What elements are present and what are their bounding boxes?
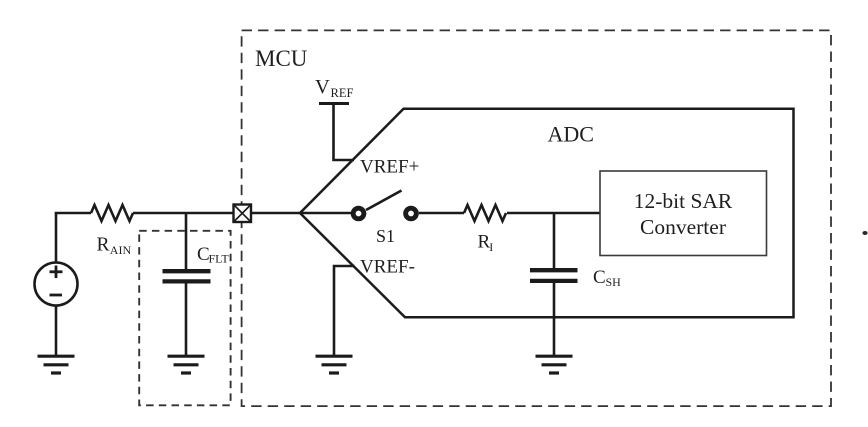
label C_SH: [593, 267, 621, 289]
wire: main input wire to resistor: [55, 212, 91, 215]
wire: VREF- tap to ground: [334, 266, 355, 356]
pin P1 (boundary pin symbol): [234, 205, 252, 223]
svg-text:MCU: MCU: [255, 46, 308, 71]
V_REF supply bar: [319, 102, 349, 105]
op-amp style ADC block outline (pentagon): [300, 109, 794, 317]
resistor R_I: [464, 205, 506, 221]
svg-text:12-bit SAR: 12-bit SAR: [634, 189, 733, 213]
svg-text:S1: S1: [376, 226, 395, 246]
voltage source V1: [35, 263, 78, 306]
C_FLT filter dashed boundary box: [139, 231, 230, 405]
svg-text:AIN: AIN: [110, 243, 132, 257]
svg-text:ADC: ADC: [548, 122, 594, 147]
MCU dashed boundary box: [242, 30, 831, 406]
svg-text:VREF+: VREF+: [360, 157, 419, 178]
label C_FLT: [197, 244, 229, 266]
capacitor C_SH: [530, 270, 578, 281]
svg-text:V: V: [315, 76, 330, 98]
block U1: 12-bit SAR Converter: [600, 171, 767, 256]
wire: source bottom lead: [55, 306, 58, 357]
wire: source top lead: [55, 213, 58, 263]
node: C_SH junction / wire down to C_SH: [553, 213, 556, 269]
wire: C_SH to ground: [553, 283, 556, 356]
ground under C_SH: [536, 356, 573, 373]
label V_REF: [315, 76, 353, 100]
wire: pin to ADC apex and switch: [251, 212, 351, 215]
switch S1: [351, 191, 419, 222]
svg-text:I: I: [489, 240, 493, 254]
wire: resistor to pin: [133, 212, 234, 215]
wire: V_REF down to VREF+: [334, 104, 355, 160]
svg-text:FLT: FLT: [209, 251, 230, 265]
svg-text:C: C: [593, 267, 606, 288]
wire: switch to R_I: [419, 212, 464, 215]
label R_AIN: [97, 235, 132, 258]
label R_I: [478, 232, 494, 254]
svg-text:R: R: [97, 235, 110, 256]
artifact dot at right edge: [862, 231, 867, 235]
resistor R_AIN: [91, 205, 133, 221]
ground under C_FLT: [168, 356, 205, 373]
svg-text:VREF-: VREF-: [360, 257, 415, 278]
svg-text:SH: SH: [606, 275, 622, 289]
svg-text:REF: REF: [331, 86, 354, 100]
wire: C_FLT to ground: [185, 284, 188, 357]
wire: R_I to SAR converter: [507, 212, 600, 215]
capacitor C_FLT: [163, 271, 211, 281]
ground under source: [38, 356, 75, 373]
svg-text:Converter: Converter: [640, 215, 726, 239]
node: C_FLT junction / wire down to C_FLT: [185, 213, 188, 269]
ground under VREF-: [316, 356, 353, 373]
